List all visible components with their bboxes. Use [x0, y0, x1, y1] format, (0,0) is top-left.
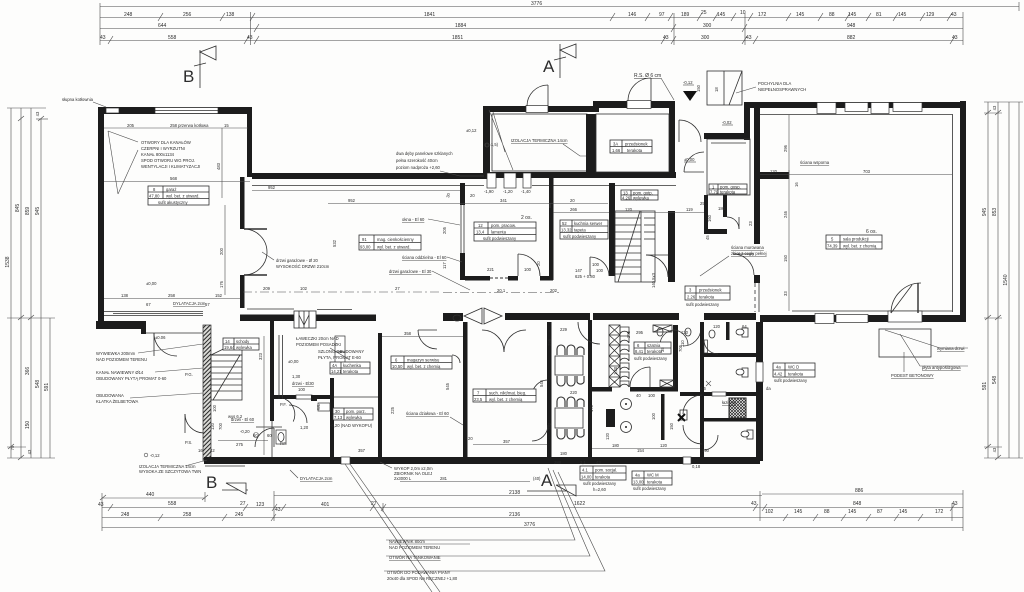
hanger arcs column: [620, 327, 629, 387]
svg-text:245: 245: [235, 512, 244, 518]
svg-text:płyta antypoślizgowa: płyta antypoślizgowa: [922, 365, 961, 370]
svg-text:±0,00: ±0,00: [288, 359, 299, 364]
svg-text:-1,90: -1,90: [484, 189, 494, 194]
svg-text:275: 275: [236, 442, 244, 447]
svg-text:120: 120: [681, 330, 689, 335]
svg-text:0,18: 0,18: [692, 464, 701, 469]
svg-text:wylewka: wylewka: [633, 196, 649, 201]
svg-text:45: 45: [705, 235, 710, 240]
svg-text:±0,12: ±0,12: [466, 128, 477, 133]
label box: 3A przedsionek: [610, 140, 652, 153]
svg-text:97: 97: [659, 12, 665, 18]
svg-text:20: 20: [468, 436, 473, 441]
svg-text:43: 43: [952, 35, 958, 41]
svg-text:252: 252: [547, 422, 552, 430]
svg-text:4A: 4A: [332, 363, 337, 368]
window in left block top wall: [106, 108, 119, 113]
bottom dimension chain line 2: [102, 504, 963, 511]
svg-text:91: 91: [362, 237, 367, 242]
svg-text:±0,00: ±0,00: [146, 281, 157, 286]
svg-text:20.1: 20.1: [497, 288, 506, 293]
svg-text:87: 87: [877, 509, 883, 515]
dims inside right room: [760, 170, 952, 179]
svg-text:NAWIEWNIK 80cm: NAWIEWNIK 80cm: [389, 539, 425, 544]
svg-text:pełna szerokość 40cm: pełna szerokość 40cm: [396, 158, 438, 163]
svg-text:952: 952: [348, 198, 356, 203]
svg-text:27: 27: [395, 286, 400, 291]
label box: 5 sala produkcji: [826, 235, 882, 249]
svg-text:2,26: 2,26: [687, 295, 696, 300]
svg-text:52: 52: [562, 221, 567, 226]
top dimension chain line 4: [100, 36, 963, 44]
svg-text:300: 300: [703, 23, 712, 29]
door opening in segment2: [627, 101, 651, 109]
svg-text:288: 288: [554, 460, 562, 465]
svg-text:67: 67: [146, 302, 151, 307]
svg-text:43: 43: [98, 502, 104, 508]
svg-text:lamenta: lamenta: [491, 230, 507, 235]
wall: right room bottom: [760, 315, 966, 322]
svg-text:13,00: 13,00: [633, 480, 644, 485]
stairwell walls bottom-left: [270, 316, 274, 421]
windows hanging below wall at 485-532: [487, 173, 496, 188]
svg-text:OBUDOWANY PŁYTĄ PROMAT 0-60: OBUDOWANY PŁYTĄ PROMAT 0-60: [96, 376, 167, 381]
label box: 52 kuchnia: [560, 220, 608, 239]
svg-text:401: 401: [321, 502, 330, 508]
svg-text:548: 548: [992, 376, 998, 385]
svg-text:3776: 3776: [524, 522, 535, 528]
svg-text:88: 88: [824, 509, 830, 515]
svg-text:10,50: 10,50: [392, 364, 403, 369]
svg-text:190: 190: [702, 448, 710, 453]
svg-text:882: 882: [847, 35, 856, 41]
svg-text:garaż: garaż: [166, 187, 176, 192]
svg-text:43: 43: [952, 501, 958, 507]
svg-text:221: 221: [487, 267, 495, 272]
svg-text:KANAŁ NAWIEWNY Ø14: KANAŁ NAWIEWNY Ø14: [96, 370, 144, 375]
svg-text:558: 558: [168, 501, 177, 507]
svg-text:88: 88: [829, 12, 835, 18]
wall: garage right side: [240, 177, 245, 229]
staircase bottom-left: [211, 340, 242, 400]
section marker A bottom: [527, 471, 576, 496]
svg-text:591: 591: [44, 383, 50, 392]
inner dark wall right of insulated room: [586, 114, 591, 172]
3A room inner boundary: [596, 114, 669, 172]
corridor door arcs near 3A: [679, 120, 701, 142]
window: left block top long window: [155, 108, 218, 114]
svg-text:łazienki: łazienki: [722, 400, 736, 405]
svg-text:945: 945: [35, 207, 41, 216]
svg-text:209: 209: [263, 286, 271, 291]
svg-text:sufit podwieszany: sufit podwieszany: [774, 378, 808, 383]
svg-text:43: 43: [27, 449, 32, 454]
svg-text:145: 145: [796, 12, 805, 18]
svg-text:sala produkcji: sala produkcji: [843, 237, 869, 242]
svg-text:117: 117: [442, 262, 447, 269]
svg-text:180: 180: [560, 451, 568, 456]
svg-text:23,5: 23,5: [474, 397, 483, 402]
door arc kitchen: [590, 257, 609, 276]
kitchen 4A fixtures: [335, 336, 345, 352]
svg-text:1851: 1851: [452, 35, 463, 41]
svg-text:P.S.: P.S.: [185, 440, 192, 445]
svg-text:wyl. bet. z utward.: wyl. bet. z utward.: [166, 194, 200, 199]
svg-text:440: 440: [146, 492, 155, 498]
svg-text:-0,20 (NAD WYKOPU): -0,20 (NAD WYKOPU): [330, 423, 373, 428]
svg-text:205: 205: [127, 123, 135, 128]
svg-text:19,64: 19,64: [224, 345, 235, 350]
svg-text:terakota: terakota: [343, 369, 359, 374]
svg-text:60: 60: [267, 433, 272, 438]
svg-text:mag. cienkościenny: mag. cienkościenny: [377, 237, 415, 242]
svg-text:18: 18: [714, 87, 719, 92]
wall stub sciana wsporna: [760, 172, 789, 179]
svg-text:2136: 2136: [509, 512, 520, 518]
svg-text:145: 145: [899, 509, 908, 515]
middle staircase: [615, 211, 655, 282]
szatnia partition walls: [673, 325, 678, 387]
svg-text:słupna kotłownia: słupna kotłownia: [62, 97, 94, 102]
svg-text:WYWIEWKA 200mm: WYWIEWKA 200mm: [96, 351, 136, 356]
svg-text:123: 123: [256, 502, 265, 508]
svg-text:119: 119: [686, 207, 693, 212]
svg-text:8,41: 8,41: [635, 349, 644, 354]
bottom dimension chain line 1: [100, 494, 963, 500]
garage double door arcs: [244, 229, 267, 252]
label box: 4a WC M (below bottom wall): [632, 471, 672, 485]
svg-text:248: 248: [124, 12, 133, 18]
svg-text:100: 100: [524, 267, 532, 272]
svg-text:dwa dęby panelowe szklanych: dwa dęby panelowe szklanych: [396, 151, 453, 156]
svg-text:tapeta: tapeta: [574, 228, 586, 233]
svg-text:4a: 4a: [635, 473, 640, 478]
double swing door at corridor x 482-524: [464, 308, 502, 324]
door arc on right room left wall: [733, 254, 754, 275]
svg-text:kuchnia serwer: kuchnia serwer: [574, 221, 603, 226]
partitions small sanitary rooms left: [330, 378, 334, 457]
corridor arc right of szatnia: [683, 328, 701, 346]
door opening in segment1: [526, 106, 548, 113]
svg-text:da: da: [766, 386, 771, 391]
svg-text:WL: WL: [316, 403, 321, 410]
svg-text:180: 180: [612, 443, 620, 448]
wall: 3A block right side: [669, 102, 675, 177]
kitchen right wall: [609, 183, 615, 276]
door arcs small rooms left: [185, 414, 204, 433]
svg-text:20: 20: [536, 261, 541, 266]
left dimension chains: [7, 108, 55, 460]
sink in room near x455: [453, 315, 461, 321]
svg-text:B: B: [183, 67, 194, 86]
svg-text:poziom nadproża +2,60: poziom nadproża +2,60: [396, 165, 441, 170]
svg-text:terakota: terakota: [699, 295, 715, 300]
svg-text:4.1: 4.1: [582, 468, 588, 473]
3A room inner left wall: [591, 114, 596, 172]
garage bottom dims: [104, 298, 240, 300]
label box: 30 pom porz: [333, 408, 373, 420]
svg-text:NIEPEŁNOSPRAWNYCH: NIEPEŁNOSPRAWNYCH: [758, 87, 806, 92]
leaders to bottom notes: [345, 464, 432, 592]
door arcs room 7 top (double): [482, 330, 504, 352]
svg-text:1,20: 1,20: [300, 425, 309, 430]
svg-text:OBUDOWANA: OBUDOWANA: [96, 393, 124, 398]
svg-text:4a: 4a: [776, 365, 781, 370]
svg-text:202: 202: [550, 288, 558, 293]
door opening right room bottom: [888, 311, 922, 322]
room 12 bottom wall: [465, 276, 490, 281]
room 1 pom gosp below ramp: [707, 139, 750, 195]
svg-text:2x3000 L: 2x3000 L: [394, 476, 412, 481]
svg-text:357: 357: [503, 439, 511, 444]
svg-text:120: 120: [770, 169, 778, 174]
svg-text:drzwi garażowe - Ø 20: drzwi garażowe - Ø 20: [276, 258, 319, 263]
svg-text:-1,40: -1,40: [521, 189, 531, 194]
wall: garage bottom inner double line: [104, 312, 203, 316]
svg-text:ŁAWECZKI 20cm NAD: ŁAWECZKI 20cm NAD: [296, 336, 339, 341]
svg-text:74,39: 74,39: [827, 244, 838, 249]
svg-text:4,26: 4,26: [622, 196, 631, 201]
svg-text:drzwi - El 60: drzwi - El 60: [231, 417, 255, 422]
label box: 6 magazyn serwisu: [391, 356, 452, 369]
svg-text:POZIOMEM POSADZKI: POZIOMEM POSADZKI: [296, 342, 341, 347]
room 12 left wall with window: [460, 183, 465, 205]
svg-text:147: 147: [575, 268, 583, 273]
svg-text:341: 341: [500, 198, 508, 203]
black triangle marker at entrance: [683, 91, 697, 101]
svg-text:P.F.: P.F.: [280, 402, 287, 407]
svg-text:129: 129: [926, 12, 935, 18]
door arc szatnia: [630, 367, 650, 387]
svg-text:150: 150: [783, 254, 788, 262]
svg-text:NAD POZIOMEM TERENU: NAD POZIOMEM TERENU: [96, 357, 147, 362]
corridor wall x279: [279, 335, 283, 399]
svg-text:145: 145: [794, 509, 803, 515]
svg-text:120: 120: [660, 443, 668, 448]
svg-text:848: 848: [853, 501, 862, 507]
svg-text:43: 43: [992, 447, 997, 452]
svg-text:A: A: [543, 57, 555, 76]
svg-text:pom. socjal.: pom. socjal.: [595, 468, 617, 473]
svg-text:PODEST BETONOWY: PODEST BETONOWY: [891, 373, 934, 378]
svg-text:terakota: terakota: [595, 475, 611, 480]
svg-text:152: 152: [215, 293, 223, 298]
svg-text:295: 295: [626, 330, 631, 338]
wall: long middle wall y173: [252, 173, 490, 179]
svg-text:DYLATACJA 2cm: DYLATACJA 2cm: [173, 301, 206, 306]
wall: step below left block: [141, 321, 146, 334]
svg-text:13,32: 13,32: [561, 228, 572, 233]
svg-text:2,1: 2,1: [580, 460, 586, 465]
right dimension chains: [984, 102, 1023, 460]
svg-text:przedsionek: przedsionek: [699, 288, 722, 293]
svg-text:7,13: 7,13: [334, 415, 343, 420]
bench X in szatnia bottom: [660, 380, 674, 387]
svg-text:IZOLACJA TERMICZNA 14cm: IZOLACJA TERMICZNA 14cm: [511, 138, 568, 143]
svg-text:700: 700: [218, 422, 223, 430]
svg-text:43: 43: [247, 35, 253, 41]
svg-text:358: 358: [404, 331, 412, 336]
svg-text:81: 81: [876, 12, 882, 18]
svg-text:magazyn serwisu: magazyn serwisu: [407, 358, 440, 363]
svg-text:625 + 0.80: 625 + 0.80: [575, 274, 596, 279]
svg-text:100: 100: [648, 393, 656, 398]
label box: 12 pom pracow: [474, 222, 536, 241]
door arc room 12: [518, 254, 540, 276]
svg-text:120: 120: [625, 207, 633, 212]
door arc at staircase wall: [646, 255, 668, 277]
svg-text:12: 12: [478, 223, 483, 228]
svg-text:1538: 1538: [5, 256, 11, 267]
svg-text:100: 100: [298, 387, 306, 392]
svg-text:644: 644: [158, 23, 167, 29]
svg-text:WC D: WC D: [788, 365, 799, 370]
svg-text:wyl. bet. z utward.: wyl. bet. z utward.: [377, 245, 411, 250]
svg-text:terakota: terakota: [647, 480, 663, 485]
svg-text:952: 952: [268, 185, 276, 190]
bottom dimension vertical connectors: [102, 490, 963, 531]
svg-text:-0,02: -0,02: [722, 120, 732, 125]
svg-text:okna - El 60: okna - El 60: [402, 217, 425, 222]
svg-text:145: 145: [717, 12, 726, 18]
svg-text:591: 591: [982, 382, 988, 391]
svg-text:64: 64: [742, 324, 747, 329]
svg-text:ściana murowana: ściana murowana: [731, 245, 764, 250]
svg-text:180: 180: [718, 206, 726, 211]
svg-text:P.G.: P.G.: [185, 372, 193, 377]
svg-text:POCHYLNIA DLA: POCHYLNIA DLA: [758, 81, 791, 86]
svg-text:47,80: 47,80: [149, 194, 160, 199]
svg-text:120: 120: [605, 432, 610, 440]
label box: 13 pom gosp (under 3A): [621, 190, 658, 200]
svg-text:483: 483: [216, 162, 221, 170]
room 6 left wall: [378, 333, 382, 457]
svg-text:256: 256: [183, 12, 192, 18]
wall: long wall under 3A block: [484, 172, 676, 178]
svg-text:248: 248: [121, 512, 130, 518]
svg-text:948: 948: [847, 23, 856, 29]
svg-text:wylewka: wylewka: [236, 345, 252, 350]
svg-text:100: 100: [212, 404, 217, 412]
svg-text:OTWORY DLA KANAŁÓW: OTWORY DLA KANAŁÓW: [141, 140, 191, 145]
door arc lower-left room: [255, 428, 274, 447]
svg-text:B: B: [206, 473, 217, 492]
svg-text:2 os.: 2 os.: [521, 215, 532, 221]
svg-text:102: 102: [300, 286, 308, 291]
svg-text:SPOD OTWORU WG PROJ.: SPOD OTWORU WG PROJ.: [141, 158, 195, 163]
svg-text:145: 145: [848, 509, 857, 515]
svg-text:20x40 dla SPOD NA RĘCZNEJ +1,8: 20x40 dla SPOD NA RĘCZNEJ +1,80: [387, 576, 458, 581]
svg-text:27: 27: [240, 501, 246, 507]
svg-text:20: 20: [570, 198, 575, 203]
svg-text:CZERPNI I WYRZUTNI: CZERPNI I WYRZUTNI: [141, 146, 185, 151]
label box: 4A kuchenka: [330, 362, 370, 374]
svg-text:1,66: 1,66: [612, 148, 621, 153]
section marker B top: [183, 46, 216, 88]
svg-text:23: 23: [748, 221, 753, 226]
svg-text:ściana oddzielna - El 60: ściana oddzielna - El 60: [402, 255, 447, 260]
room 7 right wall: [547, 322, 552, 457]
svg-text:43: 43: [596, 460, 601, 465]
toilets: [657, 328, 753, 439]
svg-text:1540: 1540: [1003, 274, 1009, 285]
svg-text:548: 548: [35, 380, 41, 389]
svg-text:35: 35: [660, 347, 665, 352]
svg-text:545: 545: [445, 382, 450, 390]
wall between room12 and kitchen: [549, 177, 554, 280]
wall: corridor bottom (right part) segments: [443, 313, 463, 321]
svg-text:sufit podwieszany: sufit podwieszany: [583, 481, 617, 486]
svg-text:189: 189: [681, 12, 690, 18]
svg-text:57: 57: [205, 302, 210, 307]
svg-text:140,5x3: 140,5x3: [651, 272, 656, 288]
svg-text:OTWÓR NA TANKOWANIE: OTWÓR NA TANKOWANIE: [389, 555, 441, 560]
svg-text:43: 43: [951, 12, 957, 18]
svg-text:160: 160: [707, 214, 712, 222]
svg-text:14,21: 14,21: [331, 369, 342, 374]
svg-text:229: 229: [560, 327, 568, 332]
wall: left block right side: [247, 107, 252, 177]
svg-text:100: 100: [596, 268, 604, 273]
top dimension chain line 3: [100, 24, 963, 32]
svg-text:zbior z cegły pełnej: zbior z cegły pełnej: [731, 251, 767, 256]
svg-text:146: 146: [628, 12, 637, 18]
label box: 3 przedsionek: [685, 286, 730, 300]
svg-text:43: 43: [35, 111, 40, 116]
svg-text:16: 16: [198, 448, 203, 453]
svg-text:357: 357: [358, 448, 366, 453]
svg-text:schody: schody: [236, 339, 250, 344]
svg-text:43: 43: [663, 35, 669, 41]
svg-text:terakota: terakota: [788, 372, 804, 377]
svg-text:sufit podwieszany: sufit podwieszany: [633, 486, 667, 491]
svg-text:15: 15: [224, 123, 229, 128]
svg-text:266: 266: [570, 207, 578, 212]
svg-text:sufit podwieszany: sufit podwieszany: [634, 356, 668, 361]
door arc at garage bottom step: [154, 333, 177, 356]
svg-text:120: 120: [210, 422, 215, 430]
wall right of staircase: [668, 211, 675, 277]
svg-text:366: 366: [25, 367, 31, 376]
svg-text:43: 43: [746, 35, 752, 41]
svg-text:±0.06: ±0.06: [155, 335, 166, 340]
door arc into right room: [891, 283, 921, 313]
svg-text:SZLONG OBUDOWANY: SZLONG OBUDOWANY: [318, 349, 364, 354]
svg-text:such. nikt/mat. bieg.: such. nikt/mat. bieg.: [489, 391, 526, 396]
wall: lower wing right: [756, 322, 763, 461]
alcove walls near przedsionek: [704, 229, 727, 234]
svg-text:258 przerwa kotłowa: 258 przerwa kotłowa: [170, 123, 209, 128]
svg-text:drzwi - El30: drzwi - El30: [292, 381, 315, 386]
svg-text:wymiana drzwi: wymiana drzwi: [937, 346, 965, 351]
svg-text:246: 246: [783, 210, 788, 218]
svg-text:ściana wsporna: ściana wsporna: [800, 160, 830, 165]
svg-text:545: 545: [539, 379, 544, 387]
svg-text:R.S. Ø 6 cm: R.S. Ø 6 cm: [634, 73, 661, 79]
svg-text:20: 20: [470, 193, 475, 198]
svg-text:PŁYTA, PROMAT E-60: PŁYTA, PROMAT E-60: [318, 355, 361, 360]
dim line hall top: [328, 204, 608, 209]
svg-text:sufit podwieszany: sufit podwieszany: [686, 302, 720, 307]
svg-text:300: 300: [701, 35, 710, 41]
svg-text:WC M: WC M: [647, 473, 659, 478]
svg-text:102: 102: [765, 509, 774, 515]
room 6 right wall (party wall): [463, 322, 468, 457]
svg-text:wyl. bet. z chemią: wyl. bet. z chemią: [407, 364, 441, 369]
svg-text:-0,20: -0,20: [240, 429, 250, 434]
svg-text:138: 138: [226, 12, 235, 18]
svg-text:859: 859: [25, 207, 31, 216]
